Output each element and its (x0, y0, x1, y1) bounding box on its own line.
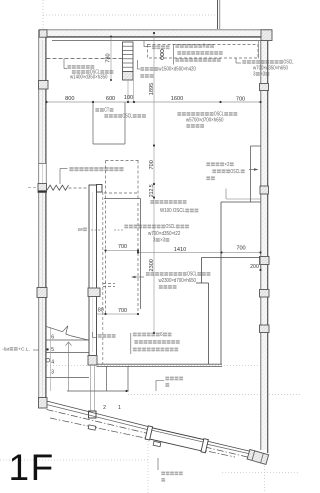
fukashi wall face dashed (102, 192, 104, 364)
shelf inner line y199 (226, 198, 261, 200)
leader overhead shelf (63, 59, 65, 69)
svg-text:600: 600 (106, 96, 115, 102)
label door hardware (161, 472, 165, 474)
svg-text:2: 2 (103, 405, 106, 411)
bracket keikal top (173, 44, 175, 65)
label register counter (95, 108, 99, 110)
svg-text:5: 5 (51, 347, 54, 353)
dashed inner line y193 (104, 192, 137, 194)
column block left wall y288 (37, 288, 47, 298)
bracket keikal bottom (130, 333, 132, 354)
svg-text:w1500×d500×h420: w1500×d500×h420 (158, 67, 196, 73)
top wall (39, 30, 272, 36)
leader door hardware (157, 458, 159, 470)
svg-text:6: 6 (51, 335, 54, 341)
short dashes y284 (103, 283, 115, 285)
column block right wall y257 (260, 257, 270, 265)
dim y314 (97, 313, 139, 315)
dash-dot line 1 (47, 410, 259, 460)
clamp mark 2 (153, 441, 161, 446)
svg-text:CT: CT (104, 108, 110, 114)
svg-text:w700×d350×t22: w700×d350×t22 (148, 231, 181, 237)
display table dashed rect (106, 160, 141, 162)
svg-text:80: 80 (98, 308, 104, 314)
interior wall bottom post (89, 411, 97, 418)
wall shelf ladder top (123, 42, 134, 72)
stair direction diagonal with break (46, 326, 63, 331)
floor boundary solid L (104, 198, 141, 200)
svg-text:OSCL: OSCL (230, 169, 240, 175)
leader fukashi bottom (92, 332, 94, 338)
vertical line to sheet top (217, 0, 219, 29)
curtain dashed continuation (69, 187, 90, 189)
display fixture top y257.5 (202, 257, 261, 259)
dashed stub left of wall (28, 186, 39, 188)
svg-text:100: 100 (124, 95, 133, 101)
svg-text:700: 700 (236, 97, 245, 103)
svg-text:700: 700 (118, 244, 127, 250)
right wall inner line (260, 41, 262, 451)
continuation lower parallel (204, 444, 251, 455)
svg-text:3: 3 (153, 238, 156, 244)
label bench (140, 67, 144, 69)
svg-text:200: 200 (250, 264, 259, 270)
interior wall thin continuation lines (90, 365, 92, 411)
column block right wall y290 (260, 290, 270, 298)
leader shelf top-right (235, 58, 237, 63)
label display shelf long (177, 112, 181, 114)
dim y252.5 right (138, 252, 261, 254)
label fukashi wall bottom (98, 334, 102, 336)
stair stringer line (49, 327, 51, 391)
svg-text:×2: ×2 (224, 162, 229, 168)
svg-text:1: 1 (118, 405, 121, 411)
svg-text:OSCL: OSCL (187, 272, 197, 278)
stair treads (47, 339, 90, 341)
left wall faint centre line (41, 40, 43, 400)
svg-text:BW: BW (78, 227, 83, 233)
showcase slanted box (145, 426, 208, 453)
bench circles (161, 50, 164, 53)
left wall opening gap (39, 164, 46, 184)
label floor edge (165, 377, 169, 379)
interior partition wall (89, 185, 97, 356)
arrow shelf x2 (249, 169, 257, 171)
svg-text:6: 6 (203, 44, 206, 50)
label shelf x2 (206, 162, 210, 164)
grid line horizontal y394 (128, 394, 300, 396)
arrow display fixture (133, 276, 144, 278)
top wall outer line (39, 29, 272, 31)
label overhead shelf (67, 65, 71, 67)
svg-text:-6ø: -6ø (2, 346, 9, 352)
svg-text:×3: ×3 (160, 238, 165, 244)
grid line vertical x148 bottom (147, 438, 149, 493)
interior wall end block (88, 356, 97, 366)
interior wall column block y288 (88, 288, 100, 297)
svg-text:1895: 1895 (149, 83, 155, 95)
leader bench (137, 60, 139, 69)
svg-text:6: 6 (160, 332, 163, 338)
dash-dot line 2 (50, 418, 235, 457)
right wall bottom slanted cap (247, 449, 269, 464)
label display fixture (146, 272, 150, 274)
winder step lines (106, 367, 108, 392)
dim 700 y250 (106, 250, 139, 252)
svg-text:OSCL: OSCL (122, 114, 132, 120)
post circle marker (46, 358, 50, 362)
svg-text:+C.L.: +C.L. (18, 346, 30, 352)
floor line y202 (221, 201, 261, 203)
svg-text:4: 4 (51, 360, 54, 366)
svg-text:3: 3 (51, 370, 54, 376)
svg-text:700: 700 (118, 308, 127, 314)
grid line vertical x264 bottom (264, 466, 266, 493)
grid line horizontal y365 (38, 364, 268, 366)
top wall inner face line (52, 40, 261, 42)
vertical dim 730 (110, 37, 112, 81)
svg-text:3: 3 (253, 72, 256, 78)
svg-text:700: 700 (149, 160, 155, 169)
top wall inner line (47, 36, 262, 38)
svg-text:w5700×d700×h650: w5700×d700×h650 (186, 118, 224, 124)
column block top-left corner (39, 30, 47, 37)
label floor (150, 200, 154, 202)
bench right edge line (258, 41, 260, 59)
accordion curtain zigzag (47, 185, 69, 190)
display fixture x208.5 (208, 283, 210, 365)
vertical dimension line x154 (153, 33, 155, 333)
left wall inner line (45, 37, 47, 398)
ladder bottom block (123, 72, 134, 81)
label shelf top-right (242, 60, 246, 62)
display fixture y283 (196, 282, 209, 284)
right wall (261, 40, 267, 450)
storefront line S1 (47, 401, 149, 427)
svg-text:1410: 1410 (174, 247, 186, 253)
interior wall centre faint line (92, 192, 94, 352)
overhead shelf dashed outline (47, 58, 123, 60)
svg-text:730: 730 (106, 53, 112, 62)
label keikal top (175, 44, 179, 46)
svg-text:×3: ×3 (260, 72, 265, 78)
leader BW shelf (91, 229, 103, 231)
column block left wall y81 (39, 81, 49, 90)
left wall outer line (38, 30, 40, 405)
display fixture left x201.5 (201, 258, 203, 284)
column block right wall y84 (260, 84, 269, 91)
svg-text:800: 800 (65, 96, 74, 102)
svg-text:w1400×d350×h350: w1400×d350×h350 (70, 75, 108, 81)
column block right wall y186 (260, 186, 269, 194)
step landing line y391 (67, 390, 129, 392)
svg-text:212.5: 212.5 (149, 184, 155, 197)
leader floor edge (156, 381, 164, 392)
label keikal bottom (133, 333, 137, 335)
interior wall top cap (97, 185, 103, 193)
right wall outer line (267, 30, 269, 453)
stub wall lines under ladder (127, 80, 129, 102)
grid line horizontal y472 (222, 472, 300, 474)
label fukashi wall top (152, 45, 156, 47)
fukashi wall band bottom (97, 363, 223, 365)
continuation right of showcase (205, 441, 252, 452)
stair arrow vertical (68, 343, 70, 392)
leader fukashi top (143, 41, 145, 47)
clamp mark 1 (88, 425, 96, 430)
svg-text:2300: 2300 (149, 259, 155, 271)
column block top-right corner (261, 30, 272, 41)
column block left wall y184 (curtain end) (38, 184, 47, 193)
vertical x221 (220, 202, 222, 365)
svg-text:700: 700 (236, 246, 245, 252)
svg-text:1600: 1600 (171, 96, 183, 102)
dimension line y102 (47, 101, 261, 103)
svg-text:w700×d350×h650: w700×d350×h650 (253, 66, 288, 72)
column block left wall bottom corner (39, 398, 48, 409)
leader accordion (60, 168, 68, 170)
grid line horizontal y460 (0, 459, 148, 461)
svg-text:w2300×d700×h650: w2300×d700×h650 (159, 278, 197, 284)
storefront line S2 (47, 405, 148, 430)
svg-text:OSCL: OSCL (165, 224, 175, 230)
register counter rect (92, 102, 94, 144)
label shelf boards mid (124, 225, 128, 227)
bench dashed outline (148, 45, 259, 59)
leader dye note (33, 349, 39, 351)
label accordion curtain (69, 167, 73, 169)
dim 200 vertical (260, 258, 262, 271)
svg-text:W100 OSCL: W100 OSCL (160, 208, 185, 214)
left wall (39, 37, 45, 405)
grid line vertical upper (42, 0, 44, 29)
leader mid shelf dashes (114, 229, 123, 231)
grid line horizontal top (43, 14, 218, 16)
svg-text:1F: 1F (9, 447, 55, 488)
wall shelf right (x250) (251, 145, 261, 147)
column block right wall y325 (260, 325, 270, 333)
